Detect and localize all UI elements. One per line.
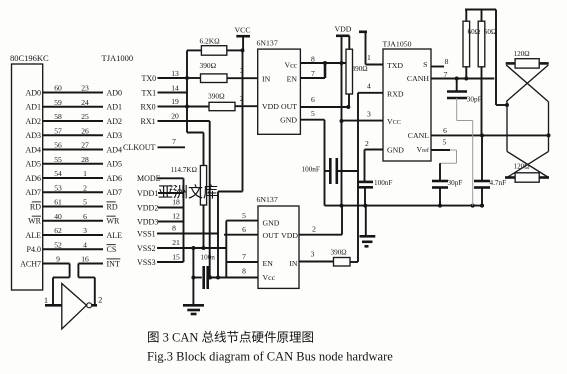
optocoupler U3 6N137 box bbox=[258, 49, 301, 134]
wire AD6 bus row bbox=[43, 177, 103, 179]
wire twist X2 bbox=[507, 151, 549, 177]
wire bus drop bbox=[495, 10, 497, 106]
svg-text:7: 7 bbox=[172, 137, 176, 146]
svg-text:1: 1 bbox=[44, 296, 48, 305]
wire AD4 bus row bbox=[43, 149, 103, 151]
U6 pin 1 TXD wire bbox=[366, 64, 384, 66]
svg-text:RX0: RX0 bbox=[141, 102, 156, 111]
svg-text:Fig.3 Block diagram of CAN Bus: Fig.3 Block diagram of CAN Bus node hard… bbox=[147, 350, 393, 364]
svg-text:3: 3 bbox=[311, 250, 315, 259]
wire top bar bbox=[465, 9, 496, 11]
svg-text:AD5: AD5 bbox=[25, 160, 41, 169]
svg-text:MODE: MODE bbox=[137, 174, 161, 183]
svg-text:GND: GND bbox=[280, 116, 297, 125]
svg-text:15: 15 bbox=[172, 252, 180, 261]
svg-text:5: 5 bbox=[242, 211, 246, 220]
rail VCC down bbox=[242, 50, 244, 191]
svg-text:8: 8 bbox=[311, 55, 315, 64]
wire opto1 GND down bbox=[324, 120, 326, 206]
svg-text:CS: CS bbox=[107, 245, 117, 254]
svg-text:40: 40 bbox=[54, 212, 62, 221]
svg-text:IN: IN bbox=[289, 259, 298, 268]
svg-text:21: 21 bbox=[172, 238, 180, 247]
svg-text:WR: WR bbox=[107, 217, 121, 226]
svg-text:INT: INT bbox=[107, 259, 120, 268]
svg-text:EN: EN bbox=[287, 75, 298, 84]
wire RD bus row bbox=[43, 206, 103, 208]
svg-text:VSS3: VSS3 bbox=[137, 258, 156, 267]
svg-text:23: 23 bbox=[81, 84, 89, 93]
U4 pin 3 wire IN bbox=[299, 261, 334, 263]
svg-text:57: 57 bbox=[54, 126, 62, 135]
svg-text:CANL: CANL bbox=[408, 131, 429, 140]
svg-text:VCC: VCC bbox=[235, 26, 251, 35]
svg-text:9: 9 bbox=[56, 255, 60, 264]
capacitor C5 30pF bbox=[439, 163, 441, 181]
svg-text:7: 7 bbox=[444, 70, 448, 79]
svg-text:54: 54 bbox=[54, 169, 62, 178]
svg-text:AD0: AD0 bbox=[107, 88, 123, 97]
svg-text:16: 16 bbox=[81, 255, 89, 264]
rail B VDD1-VDD3 tie bbox=[183, 178, 185, 262]
svg-text:14: 14 bbox=[171, 83, 179, 92]
svg-text:P4.0: P4.0 bbox=[27, 245, 41, 254]
svg-text:AD7: AD7 bbox=[25, 188, 41, 197]
wire AD3 bus row bbox=[43, 134, 103, 136]
svg-text:6: 6 bbox=[242, 225, 246, 234]
svg-text:6: 6 bbox=[311, 95, 315, 104]
rail RX1 down bbox=[209, 121, 211, 278]
svg-text:AD0: AD0 bbox=[25, 88, 41, 97]
svg-text:60Ω: 60Ω bbox=[484, 28, 497, 36]
svg-text:100n: 100n bbox=[201, 254, 216, 262]
svg-text:120Ω: 120Ω bbox=[514, 50, 530, 58]
U6 pin 8 S stub bbox=[431, 66, 444, 68]
resistor R6 390 bbox=[334, 258, 351, 267]
svg-text:Vcc: Vcc bbox=[263, 273, 276, 282]
svg-text:2: 2 bbox=[312, 225, 316, 234]
svg-text:IN: IN bbox=[262, 75, 271, 84]
svg-text:52: 52 bbox=[54, 240, 62, 249]
svg-text:390Ω: 390Ω bbox=[208, 92, 225, 101]
svg-text:5: 5 bbox=[311, 109, 315, 118]
resistor R7 60 bbox=[465, 10, 467, 22]
ground rail horizontal bbox=[325, 205, 485, 207]
U6 pin 5 Vref wire bbox=[431, 149, 450, 151]
wire VCC elbow to rail C bbox=[218, 191, 243, 193]
inverter U5 triangle bbox=[62, 284, 87, 330]
wire VSS3 tie up bbox=[183, 248, 185, 262]
optocoupler U4 6N137 box bbox=[258, 206, 299, 288]
svg-text:AD6: AD6 bbox=[107, 174, 123, 183]
svg-text:62: 62 bbox=[54, 226, 62, 235]
svg-text:24: 24 bbox=[81, 98, 89, 107]
svg-text:VDD: VDD bbox=[281, 231, 298, 240]
svg-text:28: 28 bbox=[81, 155, 89, 164]
svg-text:8: 8 bbox=[172, 224, 176, 233]
svg-text:AD1: AD1 bbox=[25, 103, 41, 112]
svg-text:VDD: VDD bbox=[335, 25, 352, 34]
wire R5 bottom to OUT bbox=[348, 94, 350, 107]
svg-text:55: 55 bbox=[54, 155, 62, 164]
svg-text:4: 4 bbox=[367, 81, 371, 90]
svg-text:2: 2 bbox=[240, 94, 244, 103]
U6 pin 3 Vcc wire bbox=[342, 120, 384, 122]
svg-text:AD2: AD2 bbox=[25, 117, 41, 126]
wire R7 to CANH bbox=[465, 67, 467, 79]
resistor R4 390 RX0 bbox=[187, 106, 209, 108]
inverter output bubble bbox=[87, 303, 92, 308]
resistor R1 6.2K bbox=[187, 49, 201, 51]
svg-text:60: 60 bbox=[54, 84, 62, 93]
U4 pin 2 wire VDD bbox=[299, 234, 342, 236]
svg-text:Vref: Vref bbox=[416, 145, 429, 154]
svg-text:WR: WR bbox=[28, 217, 42, 226]
svg-text:2: 2 bbox=[98, 295, 102, 304]
svg-text:OUT: OUT bbox=[281, 102, 297, 111]
U3 pin 5 wire GND bbox=[300, 119, 324, 121]
svg-text:27: 27 bbox=[81, 141, 89, 150]
wire ALE bus row bbox=[43, 234, 103, 236]
svg-text:20: 20 bbox=[171, 112, 179, 121]
wire CANL bbox=[431, 134, 549, 136]
svg-text:RXD: RXD bbox=[387, 89, 404, 98]
svg-text:亚洲文库: 亚洲文库 bbox=[158, 184, 218, 201]
svg-text:TJA1050: TJA1050 bbox=[383, 40, 412, 49]
ground rail from VSS2 bbox=[192, 248, 194, 305]
wire bus conductors bbox=[506, 102, 508, 152]
wire INT bus row bbox=[43, 263, 70, 265]
wire C4 thin path down bbox=[456, 98, 458, 121]
svg-text:ALE: ALE bbox=[25, 231, 41, 240]
svg-text:390Ω: 390Ω bbox=[352, 65, 368, 73]
resistor R8 60 bbox=[481, 10, 483, 22]
svg-text:25: 25 bbox=[81, 112, 89, 121]
svg-text:114.7KΩ: 114.7KΩ bbox=[171, 166, 197, 174]
svg-text:390Ω: 390Ω bbox=[200, 61, 217, 70]
svg-text:12: 12 bbox=[172, 212, 180, 221]
svg-text:AD4: AD4 bbox=[107, 145, 123, 154]
node rail A (TX0/RX0 tie) bbox=[186, 50, 188, 132]
svg-text:AD2: AD2 bbox=[107, 117, 123, 126]
rail VDD down bbox=[341, 36, 343, 206]
wire AD0 bus row bbox=[43, 92, 103, 94]
svg-text:4.7nF: 4.7nF bbox=[490, 179, 507, 187]
svg-text:TJA1000: TJA1000 bbox=[102, 53, 134, 63]
svg-text:ALE: ALE bbox=[107, 231, 123, 240]
wire WR bus row bbox=[43, 220, 103, 222]
U3 pin 8 wire Vcc bbox=[300, 62, 346, 64]
svg-text:VCC: VCC bbox=[387, 117, 401, 126]
U3 pin 7 wire EN bbox=[300, 77, 325, 79]
resistor R9 120 bbox=[506, 62, 515, 65]
power tap T2 bbox=[359, 30, 367, 33]
svg-text:61: 61 bbox=[54, 198, 62, 207]
ground GND2 symbol bbox=[365, 206, 367, 237]
svg-text:AD6: AD6 bbox=[25, 174, 41, 183]
svg-text:TXD: TXD bbox=[387, 61, 403, 70]
wire AD5 bus row bbox=[43, 163, 103, 165]
svg-text:6: 6 bbox=[443, 126, 447, 135]
wire pin2 riser bbox=[341, 206, 343, 235]
svg-text:AD3: AD3 bbox=[25, 131, 41, 140]
wire EN-Vcc tie bbox=[324, 63, 327, 78]
resistor R3 114.7K vertical bbox=[200, 166, 206, 206]
transceiver U6 TJA1050 box bbox=[383, 49, 431, 161]
wire ACH7 to inverter input bbox=[69, 264, 71, 278]
svg-text:2: 2 bbox=[83, 183, 87, 192]
svg-text:3: 3 bbox=[240, 66, 244, 75]
wire GND down to C3 bbox=[364, 150, 366, 183]
svg-text:5: 5 bbox=[83, 198, 87, 207]
svg-text:VDD3: VDD3 bbox=[137, 217, 158, 226]
svg-text:GND: GND bbox=[387, 146, 404, 155]
svg-text:13: 13 bbox=[171, 69, 179, 78]
svg-text:CLKOUT: CLKOUT bbox=[123, 143, 156, 152]
svg-text:100nF: 100nF bbox=[374, 179, 392, 187]
svg-text:TX0: TX0 bbox=[142, 74, 157, 83]
wire jog to R3 bbox=[187, 132, 204, 134]
U3 pin 6 wire OUT bbox=[300, 106, 348, 108]
svg-text:30pF: 30pF bbox=[448, 179, 463, 187]
svg-text:6N137: 6N137 bbox=[257, 39, 278, 48]
svg-text:AD3: AD3 bbox=[107, 131, 123, 140]
svg-text:AD5: AD5 bbox=[107, 160, 123, 169]
svg-text:6N137: 6N137 bbox=[257, 195, 278, 204]
resistor R2 390 TX0 bbox=[187, 77, 201, 79]
wire R3 bottom to VSS2 bbox=[203, 205, 205, 248]
svg-text:8: 8 bbox=[242, 267, 246, 276]
svg-text:OUT: OUT bbox=[263, 231, 279, 240]
svg-text:59: 59 bbox=[54, 98, 62, 107]
svg-text:1: 1 bbox=[367, 53, 371, 62]
U6 pin 2 GND wire bbox=[365, 149, 384, 151]
svg-text:CANH: CANH bbox=[407, 74, 429, 83]
svg-text:Vcc: Vcc bbox=[284, 61, 297, 70]
node opto2 left tie bbox=[225, 221, 227, 278]
U4 pin 6 wire bbox=[224, 234, 258, 236]
wire CANH bbox=[431, 78, 494, 80]
svg-text:ACH7: ACH7 bbox=[20, 259, 41, 268]
wire R8 to CANL bbox=[481, 67, 483, 136]
svg-text:VDD1: VDD1 bbox=[137, 189, 158, 198]
svg-text:6.2KΩ: 6.2KΩ bbox=[200, 37, 221, 46]
svg-text:EN: EN bbox=[263, 259, 274, 268]
wire twist X1 bbox=[506, 65, 548, 102]
svg-text:80C196KC: 80C196KC bbox=[10, 53, 49, 63]
svg-text:7: 7 bbox=[242, 252, 246, 261]
svg-text:53: 53 bbox=[54, 183, 62, 192]
resistor R10 120 bbox=[505, 176, 515, 179]
capacitor C4 30pF bbox=[456, 79, 458, 92]
capacitor C6 4.7nF bbox=[481, 135, 483, 181]
svg-text:6: 6 bbox=[83, 212, 87, 221]
wire Vref thin path bbox=[450, 149, 457, 151]
rail RXD riser bbox=[357, 93, 359, 262]
svg-text:1: 1 bbox=[83, 169, 87, 178]
U4 pin 7 wire bbox=[226, 261, 258, 263]
capacitor C1 100n bbox=[193, 277, 201, 279]
svg-text:3: 3 bbox=[83, 226, 87, 235]
svg-text:390Ω: 390Ω bbox=[331, 249, 347, 257]
svg-text:S: S bbox=[423, 60, 427, 69]
wire inverter output to INT bbox=[94, 277, 96, 305]
svg-text:19: 19 bbox=[171, 97, 179, 106]
svg-text:100nF: 100nF bbox=[302, 166, 320, 174]
svg-text:58: 58 bbox=[54, 112, 62, 121]
svg-text:120Ω: 120Ω bbox=[514, 163, 530, 171]
svg-text:3: 3 bbox=[367, 109, 371, 118]
svg-text:RX1: RX1 bbox=[141, 117, 156, 126]
svg-text:56: 56 bbox=[54, 141, 62, 150]
capacitor C3 100nF bbox=[357, 181, 373, 184]
inverter output wire pin 2 bbox=[92, 304, 97, 307]
wire CS bus row bbox=[43, 248, 103, 250]
rail C down to opto2 supply bbox=[217, 192, 219, 278]
svg-text:GND: GND bbox=[263, 219, 280, 228]
svg-text:5: 5 bbox=[443, 137, 447, 146]
svg-text:RD: RD bbox=[30, 202, 41, 211]
svg-text:AD1: AD1 bbox=[107, 103, 123, 112]
svg-text:8: 8 bbox=[445, 57, 449, 66]
ground GND1 symbol bbox=[183, 304, 204, 307]
svg-text:30pF: 30pF bbox=[467, 96, 482, 104]
svg-text:RD: RD bbox=[107, 202, 118, 211]
svg-text:26: 26 bbox=[81, 126, 89, 135]
wire AD1 bus row bbox=[43, 106, 103, 108]
svg-text:AD7: AD7 bbox=[107, 188, 123, 197]
capacitor C2 100nF bbox=[325, 170, 331, 172]
svg-text:VSS2: VSS2 bbox=[137, 244, 156, 253]
svg-text:4: 4 bbox=[83, 240, 87, 249]
U4 pin 5 wire bbox=[226, 220, 258, 222]
svg-text:AD4: AD4 bbox=[25, 145, 41, 154]
chip U1 80C196KC box bbox=[12, 64, 43, 290]
inverter input wire pin 1 bbox=[45, 304, 62, 307]
svg-text:7: 7 bbox=[311, 69, 315, 78]
svg-text:VDD2: VDD2 bbox=[137, 203, 158, 212]
wire AD2 bus row bbox=[43, 120, 103, 122]
svg-text:2: 2 bbox=[365, 139, 369, 148]
svg-text:TX1: TX1 bbox=[142, 88, 157, 97]
U6 pin 4 RXD wire bbox=[358, 92, 383, 94]
resistor R5 390 pullup bbox=[348, 36, 350, 49]
svg-text:图 3 CAN 总线节点硬件原理图: 图 3 CAN 总线节点硬件原理图 bbox=[147, 331, 314, 345]
wire AD7 bus row bbox=[43, 191, 103, 193]
svg-text:VDD: VDD bbox=[262, 102, 279, 111]
svg-text:VSS1: VSS1 bbox=[137, 229, 156, 238]
